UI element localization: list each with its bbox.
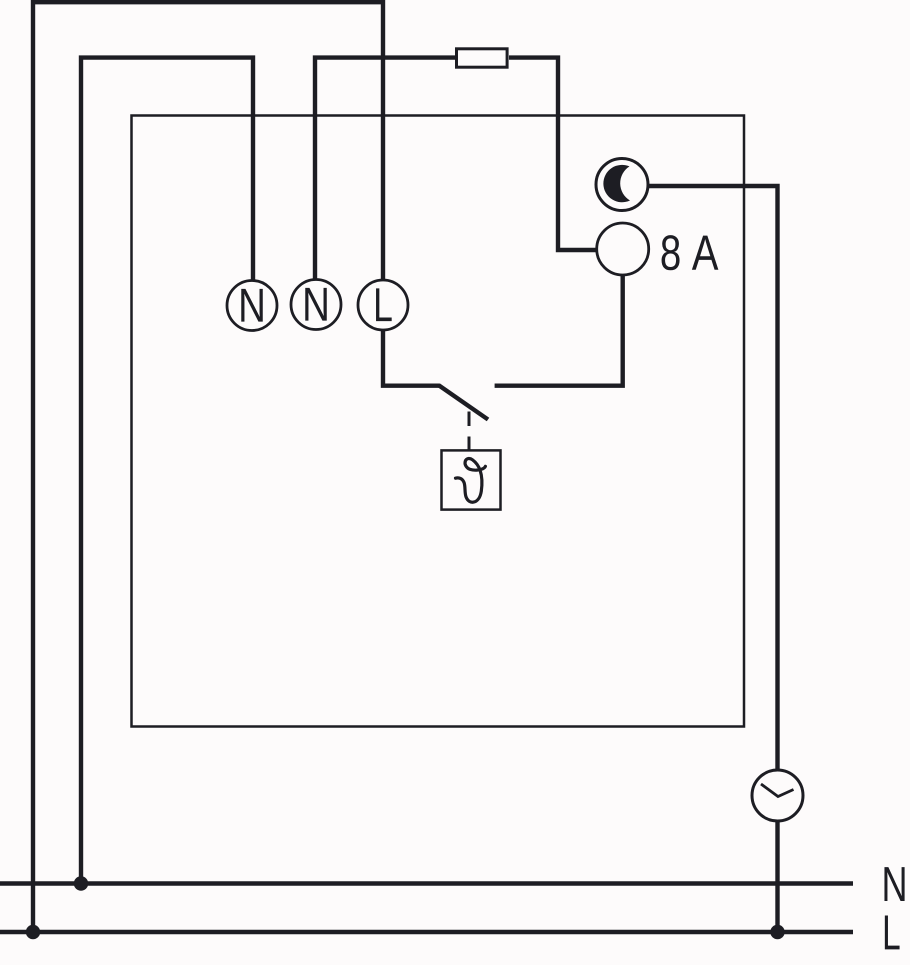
terminal N (left): [227, 281, 277, 331]
wire: clock bottom down to L bus: [775, 820, 779, 934]
label 8 A: [662, 235, 719, 270]
terminal L: [358, 280, 408, 330]
N bus: [0, 881, 853, 885]
wire: 8A contact bottom to switch fixed contact: [495, 276, 623, 386]
dashed actuator link from switch to thermostat: [468, 412, 471, 451]
clock (timer) symbol: [752, 770, 803, 821]
junction dot on L bus at x=777.5: [770, 925, 784, 939]
L bus: [0, 930, 853, 934]
label N (bus): [884, 867, 904, 901]
switch blade: [439, 385, 488, 419]
wire: moon symbol right, across, down right side to clock: [647, 186, 778, 771]
device enclosure box: [132, 116, 745, 727]
relay contact circle 8A: [597, 223, 649, 275]
label L (bus): [885, 916, 900, 950]
wire: N feed (N bus up, across, down to terminal N left): [81, 58, 253, 886]
wire: L feed (bottom L bus up, across top, down to terminal L): [33, 2, 383, 935]
wire: terminal L down to switch pivot: [383, 330, 440, 386]
wire: terminal N middle up and right to resistor: [315, 58, 455, 281]
thermostat temperature symbol (script theta): [456, 459, 486, 503]
resistor (series element): [457, 49, 508, 67]
junction dot on N bus at x=81: [74, 876, 88, 890]
junction dot on L bus at x=33: [26, 925, 40, 939]
wire: resistor to 8A contact: [509, 58, 596, 250]
thermostat box: [442, 450, 501, 509]
moon (night setback) symbol: [596, 159, 648, 211]
terminal N (middle): [291, 280, 341, 330]
